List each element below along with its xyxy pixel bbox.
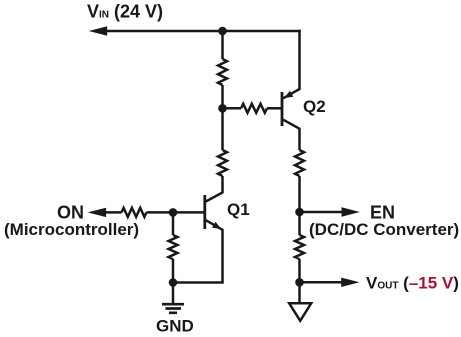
node: ground junction (dot) (169, 278, 178, 287)
wire: R3 to Q1 base (through junction) (147, 211, 205, 214)
label VOUT (-15 V) (366, 274, 459, 293)
svg-text:GND: GND (156, 317, 194, 336)
wire: R1 to Q2 base node (221, 85, 224, 108)
label VIN (24 V) (87, 2, 163, 22)
node: VOUT junction (dot) (295, 278, 304, 287)
resistor R4 (Q1 base-emitter pulldown) (169, 235, 178, 259)
ground: GND earth symbol (three bars) (162, 304, 184, 313)
wire: junction to R5 (223, 107, 242, 110)
wire: EN node down to R7 (298, 212, 301, 235)
resistor R3 (ON series, microcontroller side) (122, 208, 147, 217)
wire: VIN top rail from arrow to Q2 emitter branch (100, 30, 301, 33)
wire: Q1 base junction down to R4 (172, 212, 175, 235)
arrowhead: VIN output arrow pointing left (89, 26, 108, 35)
resistor R2 (junction to Q1 collector) (218, 150, 227, 176)
wire: R7 to VOUT node (298, 259, 301, 282)
node: EN junction (dot) (295, 208, 304, 217)
label (DC/DC Converter) (309, 220, 459, 239)
arrowhead: EN output arrow pointing right (342, 207, 360, 216)
label Q1 (227, 200, 250, 219)
svg-text:VOUT (–15 V): VOUT (–15 V) (366, 274, 459, 293)
transistor Q1 emitter arrow (NPN, pointing out) (212, 222, 221, 229)
wire: R4 to ground junction (172, 259, 175, 283)
wire: EN stub to arrow (300, 211, 343, 214)
transistor Q1 (NPN) base bar (203, 195, 206, 229)
svg-text:Q1: Q1 (227, 200, 250, 219)
svg-text:(Microcontroller): (Microcontroller) (4, 220, 139, 239)
resistor R7 (EN node to VOUT node) (295, 235, 304, 259)
arrowhead: ON input arrow pointing left (88, 208, 107, 217)
wire: VOUT stub to arrow (300, 281, 342, 284)
wire: ON arrow to R3 (99, 211, 122, 214)
wire: VIN rail down to R1 (221, 31, 224, 59)
arrowhead: VOUT arrow pointing right (341, 278, 359, 287)
transistor Q1 emitter lead with arrow, return to ground junction (173, 220, 223, 282)
transistor Q2 collector lead down (283, 120, 299, 150)
label (Microcontroller) (4, 220, 139, 239)
ground: GND stem (172, 283, 175, 305)
label Q2 (303, 97, 326, 116)
svg-text:VIN (24 V): VIN (24 V) (87, 2, 163, 22)
transistor Q2 (PNP) base bar (281, 92, 284, 126)
svg-text:Q2: Q2 (303, 97, 326, 116)
resistor R5 (Q2 base series) (241, 104, 267, 113)
label GND (156, 317, 194, 336)
node: Q2 base divider junction (dot) (218, 104, 227, 113)
svg-text:(DC/DC Converter): (DC/DC Converter) (309, 220, 459, 239)
node: Q1 base junction (dot) (169, 208, 178, 217)
resistor R6 (Q2 collector to EN node) (295, 150, 304, 176)
wire: R2 to Q1 collector lead (206, 176, 223, 202)
transistor Q2 emitter lead from VIN rail (283, 30, 299, 99)
transistor Q2 emitter arrow (PNP, pointing to bar) (284, 91, 293, 98)
wire: VOUT node to chassis ground (298, 282, 301, 303)
wire: junction down to R2 (221, 108, 224, 150)
resistor R1 (VIN to Q2 base node) (218, 59, 227, 85)
ground: open-triangle ground below VOUT divider (289, 303, 311, 321)
label EN (370, 203, 395, 223)
wire: R5 to Q2 base (267, 107, 282, 110)
node: junction of VIN rail and upper divider (dot) (218, 27, 227, 36)
label ON (57, 203, 84, 223)
wire: R6 to EN node (298, 176, 301, 212)
